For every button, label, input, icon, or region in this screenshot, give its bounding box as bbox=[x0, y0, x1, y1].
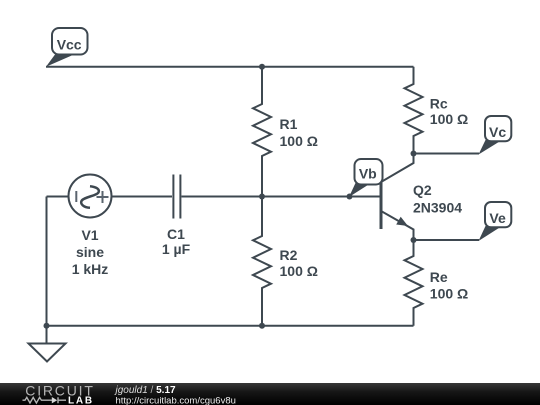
source V1 plus terminal bbox=[97, 191, 109, 203]
node junction R1 top bbox=[259, 64, 265, 70]
svg-text:2N3904: 2N3904 bbox=[413, 200, 462, 216]
svg-text:Rc: Rc bbox=[430, 96, 448, 112]
svg-text:100 Ω: 100 Ω bbox=[280, 133, 318, 149]
resistor Rc bbox=[405, 67, 423, 154]
node junction Rc bottom / collector bbox=[411, 151, 417, 157]
wire Vcc top rail bbox=[46, 66, 414, 68]
svg-text:http://circuitlab.com/cgu6v8u: http://circuitlab.com/cgu6v8u bbox=[116, 396, 236, 405]
wire C1 to base bbox=[182, 196, 381, 198]
svg-text:Vb: Vb bbox=[359, 165, 377, 181]
svg-text:R1: R1 bbox=[280, 116, 298, 132]
wire collector bbox=[381, 154, 414, 183]
node junction ground bbox=[44, 323, 50, 329]
svg-text:Re: Re bbox=[430, 269, 448, 285]
svg-text:C1: C1 bbox=[167, 226, 185, 242]
svg-text:1 kHz: 1 kHz bbox=[72, 261, 109, 277]
node Vb attach dot bbox=[347, 194, 353, 200]
node flag Ve bbox=[479, 202, 512, 241]
capacitor C1 plates bbox=[173, 175, 180, 219]
svg-text:V1: V1 bbox=[81, 227, 98, 243]
svg-text:sine: sine bbox=[76, 244, 104, 260]
svg-text:100 Ω: 100 Ω bbox=[280, 263, 318, 279]
svg-text:R2: R2 bbox=[280, 247, 298, 263]
wire to Ve flag bbox=[414, 239, 480, 241]
wire emitter bbox=[381, 211, 414, 240]
wire left vertical bbox=[46, 197, 48, 326]
svg-text:Vcc: Vcc bbox=[57, 36, 82, 52]
logo zigzag and diode bbox=[23, 397, 67, 403]
source V1 minus terminal bbox=[75, 191, 77, 202]
node flag Vcc bbox=[46, 28, 88, 67]
footer bar bbox=[0, 382, 540, 405]
svg-text:Ve: Ve bbox=[489, 210, 506, 226]
svg-text:100 Ω: 100 Ω bbox=[430, 111, 468, 127]
wire middle rail left bbox=[47, 196, 69, 198]
node junction emitter / Re top bbox=[411, 237, 417, 243]
svg-text:Q2: Q2 bbox=[413, 182, 432, 198]
node junction R2 bottom bbox=[259, 323, 265, 329]
wire bottom rail bbox=[47, 325, 414, 327]
svg-text:jgould1 / 5.17: jgould1 / 5.17 bbox=[114, 385, 177, 396]
node flag Vc bbox=[479, 116, 512, 155]
wire V1 to C1 bbox=[112, 196, 173, 198]
resistor R2 bbox=[253, 197, 271, 326]
transistor Q2 emitter arrow bbox=[396, 217, 408, 226]
transistor Q2 base bar bbox=[380, 182, 383, 229]
svg-text:LAB: LAB bbox=[68, 395, 94, 405]
node flag Vb bbox=[349, 159, 383, 197]
resistor Re bbox=[405, 240, 423, 326]
wire to Vc flag bbox=[414, 153, 480, 155]
ground symbol bbox=[29, 326, 66, 362]
source V1 sine curve bbox=[81, 186, 99, 208]
source V1 circle bbox=[69, 175, 112, 218]
resistor R1 bbox=[253, 67, 271, 197]
svg-text:1 µF: 1 µF bbox=[162, 241, 191, 257]
svg-text:Vc: Vc bbox=[489, 124, 506, 140]
svg-text:100 Ω: 100 Ω bbox=[430, 286, 468, 302]
node junction R1/R2 bbox=[259, 194, 265, 200]
